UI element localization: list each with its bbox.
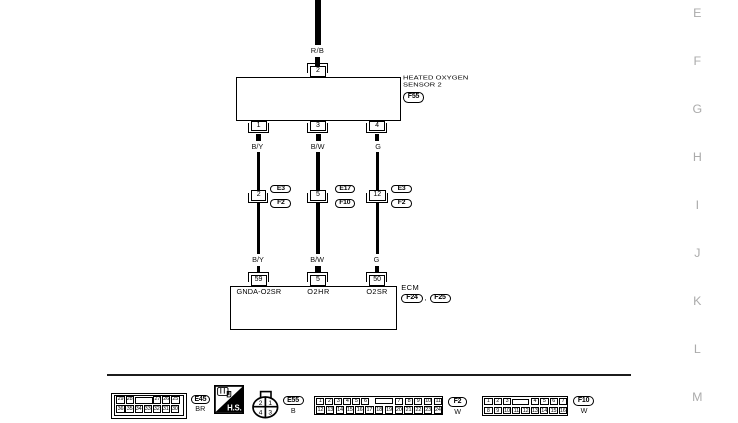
svg-text:H.S.: H.S. bbox=[227, 404, 241, 413]
svg-text:2: 2 bbox=[259, 400, 263, 407]
svg-text:1: 1 bbox=[268, 400, 272, 407]
